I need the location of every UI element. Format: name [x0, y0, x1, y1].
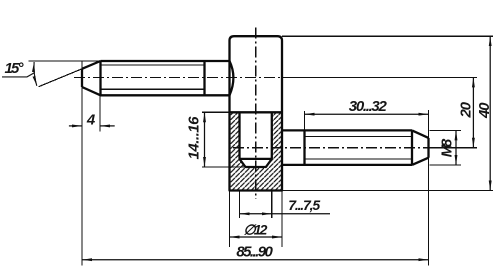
svg-text:14...16: 14...16: [186, 116, 203, 160]
svg-text:15°: 15°: [5, 60, 25, 77]
svg-text:7...7,5: 7...7,5: [288, 197, 320, 213]
svg-text:20: 20: [457, 101, 474, 118]
svg-text:M8: M8: [439, 138, 456, 157]
svg-text:4: 4: [86, 112, 96, 129]
svg-text:30...32: 30...32: [349, 98, 388, 115]
svg-text:40: 40: [476, 102, 493, 119]
svg-text:∅12: ∅12: [243, 222, 267, 238]
svg-text:85...90: 85...90: [236, 243, 273, 260]
